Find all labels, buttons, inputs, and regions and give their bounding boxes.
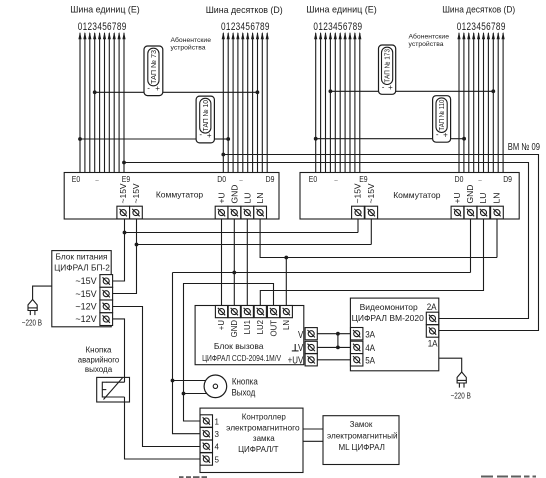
svg-text:выхода: выхода <box>85 365 113 374</box>
subscriber unit TAP73 (ТАП № 73) <box>144 46 163 96</box>
junction TAP110 on D1 right <box>462 137 466 141</box>
wire bus D-tens left line 3 <box>236 32 239 173</box>
commutator U2 terminal -15V b <box>365 206 378 219</box>
svg-text:+: + <box>207 131 212 140</box>
wire bus E-units left line 8 <box>118 32 121 173</box>
junction bridge bottom <box>336 346 340 350</box>
wire bus E-units left line 6 <box>108 32 111 173</box>
call block terminal ⊥V <box>305 341 317 353</box>
svg-text:LU: LU <box>242 193 252 204</box>
wire bus D-tens left line 5 <box>246 32 249 173</box>
svg-text:Блок вызова: Блок вызова <box>214 341 264 351</box>
commutator U2 terminal +U <box>451 206 464 219</box>
svg-text:~15V: ~15V <box>118 183 128 203</box>
wire GND horizontal bus <box>173 272 471 274</box>
svg-text:-: - <box>199 130 202 139</box>
wire GND stub to exit button <box>173 380 206 382</box>
svg-text:ЦИФРАЛ/Т: ЦИФРАЛ/Т <box>238 445 279 454</box>
wire ~12V(2): PSU to emergency button to controller pin 5 <box>113 319 125 378</box>
svg-text:ТАП № 110: ТАП № 110 <box>437 100 446 131</box>
VM terminal 3A <box>351 328 363 340</box>
svg-text:~15V: ~15V <box>366 183 376 203</box>
junction -15V(2) at U1 drop <box>135 243 139 247</box>
wire TAP10 to E-bus line 0 <box>80 138 196 140</box>
wire bus D-tens left line 7 <box>256 32 259 173</box>
wire bus E-units right line 2 <box>324 32 327 173</box>
svg-text:~15V: ~15V <box>75 289 96 299</box>
VM terminal 4A <box>351 341 363 353</box>
wire bus D-tens left line 4 <box>241 32 244 173</box>
svg-text:Коммутатор: Коммутатор <box>393 190 441 200</box>
commutator U1 terminal LU <box>241 206 254 219</box>
wire bus D-tens right line 1 <box>462 32 465 173</box>
svg-text:GND: GND <box>230 320 239 338</box>
bus D-tens left: digit labels 0-9 <box>221 21 270 34</box>
wire GND left drop to controller pin 3 <box>173 273 201 434</box>
junction -15V(1) at U1 drop <box>123 231 127 235</box>
controller terminal 3 <box>200 428 212 440</box>
PSU terminal ~15V (1) <box>100 275 113 288</box>
svg-text:9: 9 <box>122 21 127 34</box>
svg-text:D0: D0 <box>455 174 464 184</box>
subscriber unit TAP10 (ТАП № 10) <box>196 96 214 143</box>
wire bus E-units left line 1 <box>83 32 86 173</box>
junction net A on D0 <box>221 153 225 157</box>
svg-text:4А: 4А <box>365 342 375 353</box>
wire bus E-units left line 4 <box>98 32 101 173</box>
wire -15V(1) net: PSU to U1 and U2 <box>113 219 125 281</box>
wire bus E-units right line 8 <box>353 32 356 173</box>
wire bus D-tens left line 1 <box>227 32 230 173</box>
svg-text:Замок: Замок <box>350 420 373 429</box>
wire OUT: call block OUT to exit button and controller pin 1 <box>184 284 274 422</box>
junction GND at exit button <box>171 379 175 383</box>
call block terminal +U <box>215 306 227 318</box>
wire bus E-units right line 7 <box>348 32 351 173</box>
svg-text:~220 В: ~220 В <box>22 319 42 328</box>
svg-text:замка: замка <box>253 434 275 443</box>
svg-text:-: - <box>436 130 439 139</box>
wire bus E-units left line 5 <box>103 32 106 173</box>
controller terminal 4 <box>200 440 212 452</box>
wire TAP73 to D-bus line 7 <box>163 91 258 93</box>
svg-text:OUT: OUT <box>269 320 278 337</box>
wire LN drop to call block <box>285 258 287 306</box>
wire bus D-tens right line 5 <box>482 32 485 173</box>
svg-text:E9: E9 <box>359 174 367 184</box>
wire PSU mains lead <box>33 286 52 299</box>
svg-text:устройства: устройства <box>171 44 206 52</box>
junction TAP10 on E0 <box>78 137 82 141</box>
svg-text:..: .. <box>334 173 338 183</box>
wire OUT stub to exit button <box>184 393 207 395</box>
svg-text:Кнопка: Кнопка <box>86 346 113 355</box>
wire bus D-tens right line 4 <box>477 32 480 173</box>
junction TAP10 on D1 <box>226 137 230 141</box>
commutator U1 terminal +U <box>215 206 228 219</box>
call block terminal LN <box>280 306 292 318</box>
wire TAP173 to E-bus line 3 (right) <box>330 90 378 92</box>
mains plug ~220 V (left) <box>28 300 37 316</box>
wire bus D-tens left line 6 <box>251 32 254 173</box>
subscriber unit TAP173 (ТАП № 173) <box>379 45 396 94</box>
commutator U1 terminal -15V b <box>130 206 143 219</box>
wire TAP10 to D-bus line 1 <box>214 138 228 140</box>
wire TAP173 to D-bus line 7 (right) <box>396 90 494 92</box>
junction GND at U1 drop <box>232 271 236 275</box>
svg-text:-: - <box>382 83 385 92</box>
svg-text:D0: D0 <box>217 174 226 184</box>
wire controller to lock (upper) <box>303 428 323 430</box>
svg-text:~15V: ~15V <box>131 183 141 203</box>
svg-text:-: - <box>147 84 150 93</box>
electromagnetic lock box (Замок электромагнитный ML ЦИФРАЛ) <box>323 416 399 465</box>
svg-text:~15V: ~15V <box>75 276 96 286</box>
wire bus E-units left line 7 <box>113 32 116 173</box>
svg-text:ВМ № 09: ВМ № 09 <box>508 141 540 152</box>
svg-text:1А: 1А <box>428 338 438 349</box>
junction TAP73 on D7 <box>256 90 260 94</box>
svg-text:2А: 2А <box>427 301 437 312</box>
PSU terminal ~12V (1) <box>100 300 113 313</box>
svg-text:устройства: устройства <box>409 40 444 48</box>
wire bus D-tens right line 2 <box>467 32 470 173</box>
wire bus E-units left line 9 <box>122 32 125 173</box>
svg-text:GND: GND <box>465 185 475 204</box>
svg-text:электромагнитного: электромагнитного <box>226 424 300 433</box>
commutator U2 terminal GND <box>464 206 477 219</box>
wire bus E-units left line 3 <box>93 32 96 173</box>
wire bus E-units left line 0 <box>78 32 81 173</box>
wire video monitor net A: D0-left to VM terminal (y154 right x538) <box>223 155 538 331</box>
wire TAP110 to E-bus line 0 (right) <box>316 138 433 140</box>
wire bus D-tens left line 8 <box>261 32 264 173</box>
wire bus D-tens left line 2 <box>232 32 235 173</box>
junction net B on E9 <box>122 161 126 165</box>
svg-text:+U: +U <box>217 320 226 331</box>
call block pin label ⊥V <box>292 344 299 351</box>
wire bus E-units left line 2 <box>88 32 91 173</box>
svg-text:Шина десятков (D): Шина десятков (D) <box>206 5 283 16</box>
svg-text:Коммутатор: Коммутатор <box>156 190 204 200</box>
svg-text:4: 4 <box>215 443 220 452</box>
call block CCD-2094 box (Блок вызова) <box>195 306 304 365</box>
wire LN from U1 <box>260 219 497 258</box>
wire bus D-tens left line 0 <box>222 32 225 173</box>
svg-text:LU2: LU2 <box>256 320 265 334</box>
svg-text:LU1: LU1 <box>243 320 252 334</box>
wire LN from U2 <box>496 219 498 258</box>
svg-text:D9: D9 <box>266 174 275 184</box>
svg-text:ЦИФРАЛ ВМ-2020: ЦИФРАЛ ВМ-2020 <box>352 313 425 323</box>
svg-text:9: 9 <box>358 21 363 34</box>
svg-text:D9: D9 <box>503 174 512 184</box>
svg-text:3А: 3А <box>365 329 375 340</box>
svg-text:+U: +U <box>452 192 462 203</box>
PSU terminal ~12V (2) <box>100 313 113 326</box>
wire bus E-units right line 4 <box>334 32 337 173</box>
wire bus D-tens right line 6 <box>487 32 490 173</box>
call block terminal LU2 <box>254 306 266 318</box>
commutator U1 terminal LN <box>254 206 267 219</box>
exit button SB1 circle <box>204 375 227 398</box>
wire TAP110 to D-bus line 1 (right) <box>451 138 465 140</box>
svg-text:+: + <box>443 131 448 140</box>
wire video monitor net B: E9-left to VM 2A terminal <box>124 163 529 319</box>
call block terminal +UV <box>305 354 317 366</box>
wire bus D-tens right line 7 <box>492 32 495 173</box>
svg-text:Кнопка: Кнопка <box>232 376 258 387</box>
svg-text:LN: LN <box>492 193 502 204</box>
wire bus E-units right line 5 <box>339 32 342 173</box>
svg-text:электромагнитный: электромагнитный <box>327 431 398 440</box>
commutator U2 terminal LN <box>491 206 504 219</box>
svg-text:Абонентские: Абонентские <box>409 33 450 41</box>
svg-text:Контроллер: Контроллер <box>242 413 287 422</box>
wire TAP73 to E-bus line 3 <box>95 91 144 93</box>
svg-text:5А: 5А <box>365 355 375 366</box>
svg-text:Выход: Выход <box>231 387 255 398</box>
mains plug ~220 V (right) <box>457 372 466 388</box>
wire bus E-units right line 0 <box>314 32 317 173</box>
svg-text:+: + <box>155 84 160 93</box>
wire LU2: U2 LU to call block LU2 <box>260 219 483 306</box>
wire bus E-units right line 6 <box>344 32 347 173</box>
svg-text:Видеомонитор: Видеомонитор <box>360 302 418 312</box>
wire bus E-units right line 1 <box>319 32 322 173</box>
wire controller to lock (lower) <box>303 440 323 442</box>
svg-text:Шина единиц (Е): Шина единиц (Е) <box>306 5 377 16</box>
svg-text:E0: E0 <box>309 174 318 184</box>
svg-text:9: 9 <box>501 21 506 34</box>
commutator U2 box <box>300 173 519 220</box>
junction OUT at exit button <box>182 392 186 396</box>
svg-text:Блок питания: Блок питания <box>56 251 108 261</box>
wire bus D-tens right line 8 <box>497 32 500 173</box>
wire bus D-tens right line 9 <box>502 32 505 173</box>
svg-text:Абонентские: Абонентские <box>171 36 212 44</box>
svg-text:~12V: ~12V <box>75 301 96 311</box>
call block terminal GND <box>228 306 240 318</box>
svg-text:E9: E9 <box>122 174 130 184</box>
bus D-tens right: digit labels 0-9 <box>457 21 506 34</box>
svg-text:E0: E0 <box>72 174 81 184</box>
controller terminal 1 <box>200 415 212 427</box>
svg-text:Шина единиц (Е): Шина единиц (Е) <box>70 5 140 16</box>
VM terminal 2A <box>426 312 438 324</box>
call block terminal OUT <box>267 306 279 318</box>
svg-text:V: V <box>298 329 304 340</box>
svg-text:V: V <box>298 342 304 353</box>
call block terminal LU1 <box>241 306 253 318</box>
svg-text:..: .. <box>95 173 99 183</box>
wire V to VM 3A <box>317 333 350 335</box>
svg-text:5: 5 <box>215 455 220 464</box>
wire VM mains lead <box>439 358 462 372</box>
commutator U2 pin labels E0..E9 D0..D9 <box>309 173 512 184</box>
commutator U2 terminal LU <box>477 206 490 219</box>
junction bridge top <box>336 332 340 336</box>
wire -15V(2) net: PSU to U1 and U2 <box>113 219 137 294</box>
svg-text:LN: LN <box>255 193 265 204</box>
svg-text:+: + <box>388 83 393 92</box>
junction TAP110 on E0 right <box>314 137 318 141</box>
power supply BP-2 box (Блок питания ЦИФРАЛ БП-2) <box>52 251 111 327</box>
svg-text:аварийного: аварийного <box>78 356 120 365</box>
video monitor VM-2020 box (Видеомонитор) <box>350 298 438 371</box>
svg-text:ЦИФРАЛ БП-2: ЦИФРАЛ БП-2 <box>54 263 110 273</box>
VM terminal 5A <box>351 354 363 366</box>
bus E-units left: digit labels 0-9 <box>78 21 127 34</box>
wire ⊥V to VM 4A <box>317 346 350 348</box>
lock controller box (Контроллер электромагнитного замка ЦИФРАЛ/Т) <box>200 408 303 472</box>
commutator U1 box <box>64 173 279 220</box>
svg-text:1: 1 <box>215 417 220 426</box>
svg-text:..: .. <box>478 173 482 183</box>
wire +UV to VM 5A <box>317 359 350 361</box>
svg-text:GND: GND <box>229 185 239 204</box>
call block terminal V <box>305 328 317 340</box>
svg-text:ML ЦИФРАЛ: ML ЦИФРАЛ <box>339 443 385 452</box>
wire LU: U1 to call block LU1 <box>246 219 248 306</box>
junction TAP73 on E3 <box>93 90 97 94</box>
svg-text:+UV: +UV <box>288 354 304 365</box>
wire ~12V(1): PSU to controller pin 4 <box>113 307 200 447</box>
svg-text:9: 9 <box>265 21 270 34</box>
bus E-units right: digit labels 0-9 <box>313 21 362 34</box>
svg-text:ТАП № 73: ТАП № 73 <box>149 50 158 84</box>
wire bus D-tens left line 9 <box>266 32 269 173</box>
svg-text:3: 3 <box>215 430 220 439</box>
subscriber unit TAP110 (ТАП № 110) <box>433 96 451 143</box>
junction TAP173 on D7 right <box>491 89 495 93</box>
commutator U2 terminal -15V a <box>352 206 365 219</box>
commutator U1 terminal GND <box>228 206 241 219</box>
junction TAP173 on E3 right <box>329 89 333 93</box>
commutator U1 pin labels E0..E9 D0..D9 <box>72 173 275 184</box>
svg-text:ТАП № 10: ТАП № 10 <box>201 100 210 131</box>
wire +U: U1 to call block <box>221 219 223 306</box>
svg-text:..: .. <box>239 173 243 183</box>
wire GND vertical: U1 to call block <box>233 219 235 306</box>
svg-text:~220 В: ~220 В <box>451 392 471 401</box>
svg-text:~12V: ~12V <box>75 314 96 324</box>
wire GND from U2 <box>470 219 472 273</box>
wire bus D-tens right line 0 <box>457 32 460 173</box>
wire bus D-tens right line 3 <box>472 32 475 173</box>
svg-text:ТАП № 173: ТАП № 173 <box>383 49 392 83</box>
wire bridge V to ⊥V <box>337 334 339 348</box>
wire bus E-units right line 9 <box>358 32 361 173</box>
svg-text:+U: +U <box>217 192 227 203</box>
emergency exit button SB2 box <box>97 377 130 402</box>
clipped caption fragments at bottom edge <box>179 476 536 478</box>
svg-text:ЦИФРАЛ CCD-2094.1M/V: ЦИФРАЛ CCD-2094.1M/V <box>202 353 281 363</box>
svg-text:LN: LN <box>282 320 291 330</box>
emergency exit button contact symbol <box>102 377 124 402</box>
junction LN <box>284 256 288 260</box>
VM terminal (second right) <box>426 325 438 337</box>
svg-text:Шина десятков (D): Шина десятков (D) <box>442 5 515 16</box>
svg-text:~15V: ~15V <box>353 183 363 203</box>
controller terminal 5 <box>200 453 212 465</box>
svg-text:LU: LU <box>478 193 488 204</box>
PSU terminal ~15V (2) <box>100 287 113 300</box>
wire bus E-units right line 3 <box>329 32 332 173</box>
commutator U1 terminal -15V a <box>117 206 130 219</box>
